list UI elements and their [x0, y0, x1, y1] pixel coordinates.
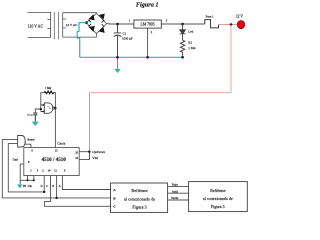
- svg-text:al conexionado de: al conexionado de: [203, 196, 233, 201]
- svg-text:B: B: [52, 185, 54, 188]
- resistor feedback 1M of oscillator: [44, 91, 55, 94]
- IC U3 4516/4510: [24, 148, 79, 176]
- node bridge minus junction: [85, 21, 88, 24]
- svg-text:Figura 3: Figura 3: [132, 205, 146, 210]
- wire gate input 2: [8, 143, 44, 192]
- node oscillator output: [54, 107, 56, 109]
- svg-text:Figura 5: Figura 5: [211, 204, 225, 209]
- diode D3 (bottom-left edge, pointing to left vertex): [88, 24, 94, 31]
- svg-text:R2: R2: [188, 40, 192, 44]
- svg-text:Rojo: Rojo: [172, 182, 179, 186]
- node inverter input: [40, 108, 42, 110]
- wire gate input 1: [2, 140, 110, 198]
- node inverter input pins: [43, 104, 45, 106]
- svg-text:Gnd: Gnd: [13, 158, 19, 162]
- wire DC plus: [107, 23, 205, 25]
- svg-text:Refiérase: Refiérase: [210, 188, 226, 193]
- node pin5 gnd: [33, 179, 35, 181]
- svg-text:110 V AC: 110 V AC: [28, 25, 44, 29]
- svg-text:Refiérase: Refiérase: [131, 188, 147, 193]
- svg-text:Azul: Azul: [172, 189, 178, 193]
- schmitt inverter U1: [41, 103, 55, 113]
- svg-text:0.1 µ: 0.1 µ: [27, 113, 33, 116]
- svg-text:Led: Led: [188, 29, 193, 33]
- connector box Figura 5: [189, 182, 248, 212]
- svg-text:Clock: Clock: [57, 142, 65, 146]
- transformer core: [54, 12, 58, 39]
- wire pin 8 to ground: [20, 164, 24, 184]
- diode D1 (top-left edge, pointing to left vertex): [88, 15, 94, 22]
- svg-text:1 KΩ: 1 KΩ: [188, 46, 196, 50]
- ground symbol on bus: [114, 57, 121, 73]
- wire secondary loop: [63, 13, 97, 37]
- resistor R2: [180, 40, 184, 57]
- wire output A: [62, 176, 110, 190]
- wire 12V rail (red) down and across: [89, 25, 231, 93]
- wire output D: [43, 176, 45, 192]
- svg-text:D: D: [41, 185, 43, 188]
- and gate reset: [18, 136, 26, 148]
- wire pin10 and pin16 to 12V rail: [79, 152, 89, 160]
- regulator U2 LM7805: [134, 20, 161, 28]
- wire and gate output to pin 9: [25, 141, 31, 147]
- wire Rojo: [168, 186, 189, 188]
- lamp 12V: [237, 21, 244, 29]
- diode D4 (bottom-right edge, pointing to right vertex): [99, 24, 104, 32]
- transformer primary winding ticks: [47, 20, 50, 29]
- svg-text:1 MΩ: 1 MΩ: [45, 87, 51, 90]
- svg-text:PE: PE: [23, 185, 26, 188]
- capacitor C1: [114, 24, 122, 57]
- ground bus (teal): [80, 56, 183, 58]
- svg-text:Up/Down: Up/Down: [92, 150, 105, 154]
- node C1 tap: [116, 23, 119, 26]
- diode D2 (top-right edge, pointing to right vertex): [100, 14, 105, 22]
- wire regulator ground pin: [147, 28, 149, 57]
- svg-text:C: C: [46, 185, 48, 188]
- node pin10 junction: [88, 151, 90, 153]
- node R2 to bus: [181, 56, 184, 59]
- connector box Figura 3: [111, 183, 168, 212]
- ground symbol C2 (teal): [32, 122, 39, 126]
- svg-text:Pare 1: Pare 1: [206, 14, 214, 18]
- wire output C with jog: [44, 176, 110, 207]
- svg-text:Verde: Verde: [171, 196, 179, 200]
- bridge rectifier diamond: [86, 13, 106, 33]
- svg-text:CIn: CIn: [28, 185, 33, 188]
- capacitor C2: [33, 113, 37, 122]
- node pin1 gnd: [27, 179, 29, 181]
- node D junction: [43, 191, 45, 193]
- node C1 to bus: [116, 56, 119, 59]
- AC source 110 V: [28, 12, 51, 37]
- wire bridge minus to ground bus (teal): [77, 23, 86, 58]
- wire Verde: [168, 199, 189, 201]
- svg-text:4516 / 4510: 4516 / 4510: [42, 157, 67, 163]
- wire pins 1 and 5 to ground: [20, 176, 34, 181]
- LED: [180, 24, 186, 40]
- svg-text:A: A: [59, 185, 61, 188]
- svg-text:12 V: 12 V: [236, 15, 243, 19]
- wire inverter input to capacitor: [35, 109, 41, 113]
- transformer secondary winding ticks: [63, 19, 66, 28]
- svg-text:Vdd: Vdd: [92, 156, 98, 160]
- switch Pare 1: [205, 20, 219, 28]
- svg-text:al conexionado de: al conexionado de: [124, 196, 155, 201]
- svg-text:Figura 1: Figura 1: [136, 1, 159, 8]
- wire 12V rail to counter: [88, 93, 90, 160]
- svg-text:LM 7805: LM 7805: [140, 23, 154, 27]
- wire clock line: [54, 108, 56, 147]
- node B junction: [55, 197, 57, 199]
- wire Azul: [168, 192, 189, 194]
- svg-text:1000 µF: 1000 µF: [122, 36, 133, 40]
- wire oscillator feedback loop: [41, 93, 56, 112]
- node regulator to bus: [146, 56, 149, 59]
- node LED tap: [181, 23, 184, 26]
- wire output B: [56, 176, 58, 198]
- svg-text:12 V AC: 12 V AC: [66, 23, 79, 27]
- svg-text:Reset: Reset: [27, 137, 34, 141]
- ground symbol counter (teal): [17, 184, 22, 188]
- svg-text:C1: C1: [123, 31, 127, 35]
- node 12V junction: [230, 23, 233, 26]
- wire switch to lamp (red): [219, 24, 238, 26]
